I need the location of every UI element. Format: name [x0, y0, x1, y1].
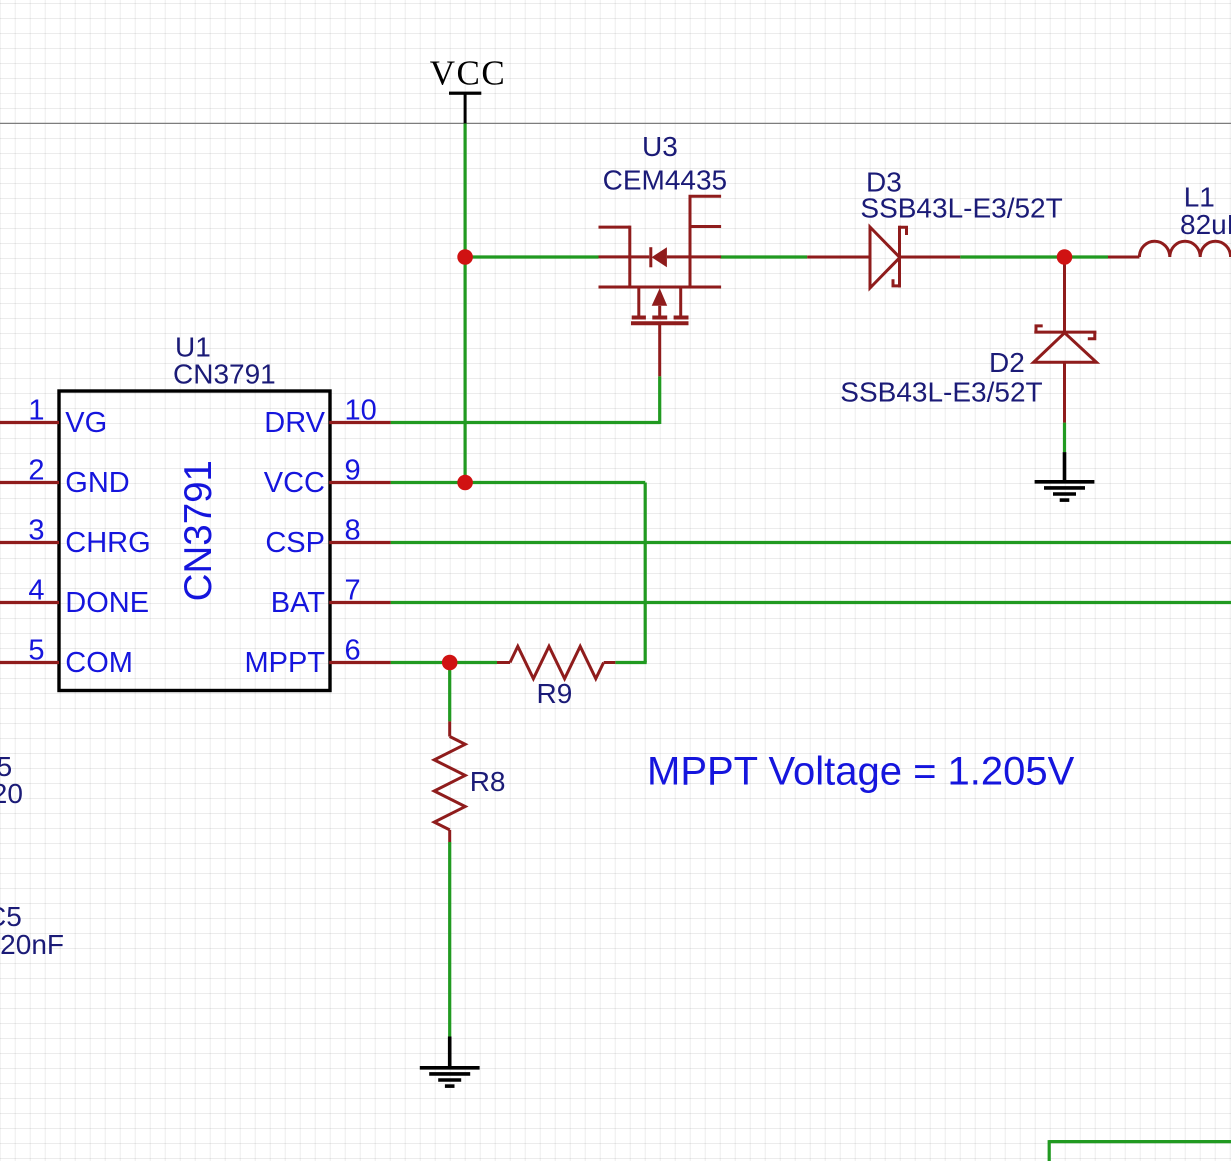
wire MPPT to R8 [448, 663, 451, 722]
pin 6 wire MPPT [329, 661, 390, 664]
wire MPPT pin6 [391, 661, 497, 664]
pin 8 wire CSP [329, 541, 390, 544]
svg-text:CN3791: CN3791 [177, 460, 220, 601]
inductor L1 [1108, 241, 1231, 257]
svg-text:D2: D2 [989, 347, 1025, 378]
wire R9 right [615, 661, 646, 664]
wire VCC to U3 [465, 255, 598, 258]
diode D2 SSB43L-E3/52T [1034, 262, 1097, 423]
svg-text:BAT: BAT [271, 587, 326, 619]
wire D3 to L1 [960, 255, 1108, 258]
junction node D2/L1 [1057, 249, 1073, 265]
svg-text:R8: R8 [470, 766, 506, 797]
wire VCC to R9 vertical [644, 483, 647, 663]
U3 channel arrow [652, 247, 667, 267]
svg-text:DRV: DRV [264, 407, 325, 439]
wire VCC vertical [464, 123, 467, 482]
svg-text:VCC: VCC [430, 54, 506, 93]
svg-text:9: 9 [345, 455, 361, 487]
svg-text:MPPT: MPPT [244, 647, 325, 679]
resistor R9 [497, 646, 615, 678]
transistor U3 CEM4435 [599, 196, 722, 376]
svg-text:VG: VG [65, 407, 107, 439]
pin 9 wire VCC [329, 481, 390, 484]
wire bottom right vertical [1048, 1140, 1051, 1161]
wire CSP pin8 [391, 541, 1231, 544]
ground below D2 [1035, 452, 1095, 500]
ground below R8 [420, 1037, 480, 1087]
pin 4 wire DONE [0, 601, 59, 604]
svg-text:7: 7 [345, 575, 361, 607]
pin 5 wire COM [0, 661, 59, 664]
U3 body diode arrow [652, 288, 668, 306]
svg-text:3: 3 [28, 515, 44, 547]
svg-text:C5: C5 [0, 901, 22, 932]
svg-text:GND: GND [65, 467, 129, 499]
svg-text:CEM4435: CEM4435 [603, 165, 728, 196]
pin 7 wire BAT [329, 601, 390, 604]
pin 3 wire CHRG [0, 541, 59, 544]
wire D2 to GND [1063, 423, 1066, 453]
svg-text:CN3791: CN3791 [173, 359, 276, 390]
svg-text:8: 8 [345, 515, 361, 547]
junction node VCC pin9 [457, 475, 473, 491]
svg-text:2: 2 [28, 455, 44, 487]
svg-text:VCC: VCC [264, 467, 325, 499]
wire VCC pin9 [391, 481, 646, 484]
svg-text:CSP: CSP [265, 527, 325, 559]
svg-text:COM: COM [65, 647, 133, 679]
svg-text:MPPT Voltage = 1.205V: MPPT Voltage = 1.205V [647, 750, 1075, 794]
junction node MPPT/R8 [442, 655, 458, 671]
sheet boundary line [0, 122, 1231, 124]
power flag VCC [430, 54, 506, 124]
IC U1 body [59, 391, 330, 691]
svg-text:SSB43L-E3/52T: SSB43L-E3/52T [840, 376, 1042, 407]
svg-text:120nF: 120nF [0, 929, 64, 960]
svg-text:4: 4 [28, 575, 44, 607]
svg-text:220: 220 [0, 778, 23, 809]
svg-text:82uH: 82uH [1180, 209, 1231, 240]
svg-text:SSB43L-E3/52T: SSB43L-E3/52T [860, 192, 1062, 223]
pin 1 wire VG [0, 421, 59, 424]
wire U3 drain vertical [658, 376, 661, 424]
svg-text:U3: U3 [642, 131, 678, 162]
pin 10 wire DRV [329, 421, 390, 424]
svg-text:6: 6 [345, 635, 361, 667]
wire BAT pin7 [391, 601, 1231, 604]
wire DRV horizontal [391, 421, 660, 424]
wire R8 to GND [448, 842, 451, 1037]
svg-text:DONE: DONE [65, 587, 149, 619]
svg-text:5: 5 [28, 635, 44, 667]
diode D3 SSB43L-E3/52T [807, 226, 960, 288]
svg-text:L1: L1 [1184, 182, 1215, 213]
wire U3 to D3 [720, 255, 807, 258]
svg-text:CHRG: CHRG [65, 527, 150, 559]
resistor R8 [434, 721, 465, 842]
pin 2 wire GND [0, 481, 59, 484]
svg-text:1: 1 [28, 395, 44, 427]
junction node VCC/U3 [457, 249, 473, 265]
svg-text:R9: R9 [537, 678, 573, 709]
svg-text:10: 10 [345, 395, 377, 427]
wire bottom right horizontal [1049, 1140, 1231, 1143]
